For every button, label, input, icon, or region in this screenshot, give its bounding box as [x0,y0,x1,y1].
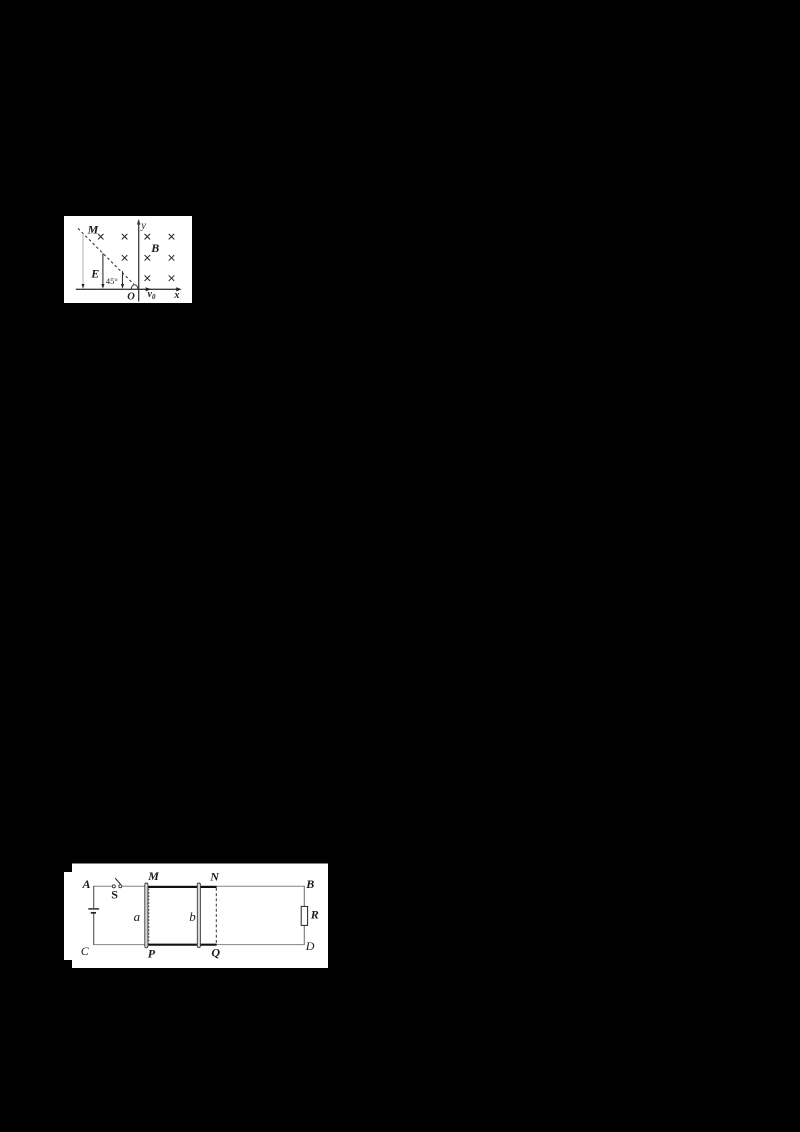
wire top A-B (right part, from switch) [122,885,304,887]
svg-text:O: O [127,291,135,302]
battery cell: short plate [91,912,96,914]
svg-text:B: B [150,241,159,255]
E-field arrow 2 [101,253,104,289]
svg-text:R: R [310,907,319,921]
svg-text:B: B [305,877,314,891]
battery cell: long plate [88,908,99,910]
dashed 45-degree line from M to O [78,228,134,284]
svg-text:D: D [305,939,315,953]
rail P-Q (thick bottom) [146,944,216,946]
svg-text:M: M [87,223,99,237]
svg-text:M: M [147,869,159,883]
switch S contact circle left [112,885,115,888]
svg-text:E: E [90,266,99,280]
v0 velocity arrowhead on x-axis [146,287,152,291]
svg-text:C: C [81,944,90,958]
svg-text:b: b [189,909,196,924]
switch S lever [115,878,120,884]
svg-text:x: x [173,290,179,301]
wire top A-B (left part, to switch) [94,885,112,887]
svg-text:y: y [140,221,146,232]
rod b (conducting bar) [197,883,200,948]
wire left A-C lower [93,913,95,945]
svg-text:N: N [209,869,220,883]
svg-text:45°: 45° [106,276,119,286]
E-field arrow 3 [121,271,124,289]
wire right B-D upper [303,886,305,907]
svg-text:Q: Q [211,946,220,960]
wire right B-D lower [303,925,305,945]
row 1 [98,234,103,239]
x-axis [76,287,182,291]
resistor R body [301,906,307,925]
row 2 [122,255,127,260]
dashed position line N-Q [215,888,217,944]
figure 2 white panel [64,864,328,969]
wire bottom C-D [94,944,305,946]
switch S contact circle right [119,885,122,888]
dashed position line beside rod a [148,889,150,944]
rail M-N (thick top) [146,886,216,888]
wire left A-C upper [93,886,95,908]
figure 1 white panel [64,216,192,303]
y-axis [137,219,141,302]
svg-text:S: S [111,888,118,902]
magnetic field cross marks [98,234,174,281]
svg-text:a: a [134,909,141,924]
angle arc at origin [131,285,138,289]
svg-text:A: A [82,877,91,891]
row 3 [145,276,150,281]
rod a (conducting bar) [145,883,148,948]
svg-text:P: P [148,947,156,961]
E-field arrow 1 (left, grey) [82,234,85,289]
